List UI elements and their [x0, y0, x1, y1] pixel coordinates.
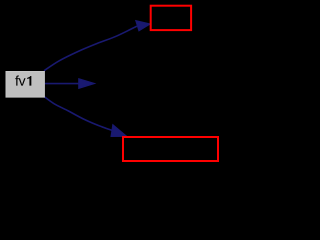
arrowhead bottom: [111, 125, 127, 137]
arrowhead top: [136, 21, 151, 31]
edge fv1 to top node: [44, 26, 137, 71]
edge fv1 to middle (hidden) node: [45, 83, 80, 85]
edge fv1 to bottom node: [44, 97, 112, 131]
top node (red border, hidden black label): [151, 6, 191, 30]
bottom node (red border, hidden black label): [123, 137, 218, 161]
node fv1 (current node, grey): [6, 72, 44, 98]
arrowhead middle: [79, 79, 95, 89]
label fv1: [15, 75, 31, 85]
